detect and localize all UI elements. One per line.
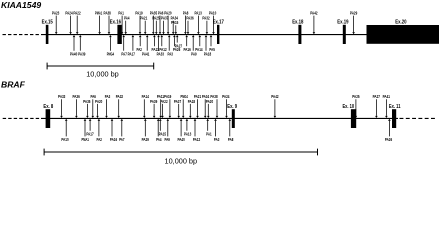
svg-text:PA17: PA17: [86, 132, 94, 137]
primer PA14 (KIAA1549, below): [195, 35, 203, 52]
primer PA40 (KIAA1549, below): [70, 35, 78, 57]
svg-text:PA16: PA16: [110, 137, 118, 142]
exon Ex.19: [337, 20, 348, 44]
svg-text:PA1: PA1: [206, 132, 212, 137]
svg-text:PA2: PA2: [96, 137, 102, 142]
primer PA33 (BRAF, above): [58, 94, 66, 118]
primer PA40 (BRAF, below): [177, 119, 185, 142]
svg-text:Ex.19: Ex.19: [337, 20, 348, 26]
svg-text:PA24: PA24: [222, 94, 230, 99]
primer PA27 (BRAF, above): [373, 94, 381, 118]
svg-text:10,000 bp: 10,000 bp: [86, 69, 119, 78]
primer PA39 (BRAF, above): [150, 99, 158, 118]
primer PA26 (KIAA1549, below): [173, 35, 181, 52]
primer PA14 (BRAF, above): [142, 94, 150, 118]
primer PA25 (BRAF, above): [352, 94, 360, 118]
primer PA36 (KIAA1549, above): [186, 16, 194, 35]
svg-text:PA26: PA26: [385, 137, 393, 142]
primer PA13 (KIAA1549, above): [194, 11, 202, 35]
svg-text:10,000 bp: 10,000 bp: [165, 157, 198, 166]
exon Ex.15: [42, 20, 53, 44]
primer PA24 (BRAF, above): [222, 94, 230, 118]
svg-text:PA3: PA3: [105, 94, 111, 99]
exon Ex.20 (large): [367, 20, 440, 44]
svg-text:PA14: PA14: [195, 47, 203, 52]
primer PA4 (BRAF, below): [156, 119, 162, 142]
scale bar 10,000 bp (KIAA1549): [47, 63, 154, 79]
primer PA38 (KIAA1549, above): [104, 11, 112, 35]
svg-text:PA39: PA39: [78, 52, 86, 57]
exon Ex.17: [213, 20, 224, 44]
primer PA35 (BRAF, above): [83, 99, 91, 118]
primer PA2 (KIAA1549, below): [136, 35, 142, 52]
svg-text:PA36: PA36: [72, 94, 80, 99]
primer PA8 (BRAF, below): [228, 119, 234, 142]
svg-text:PMA1: PMA1: [95, 11, 103, 16]
primer PA12 (BRAF, below): [193, 119, 201, 142]
primer PA16 (BRAF, below): [110, 119, 118, 142]
svg-text:Ex. 8: Ex. 8: [43, 104, 53, 110]
primer PA18 (KIAA1549, below): [204, 35, 212, 57]
primer PA16 (KIAA1549, below): [183, 35, 191, 52]
primer PA9 (BRAF, below): [164, 119, 170, 142]
primer PA17 (KIAA1549, below): [128, 35, 136, 57]
svg-text:KIAA1549: KIAA1549: [1, 0, 41, 10]
wire: main gene line KIAA1549: [42, 34, 370, 36]
primer PA27 (KIAA1549, below): [175, 35, 183, 48]
svg-text:PA7: PA7: [121, 52, 127, 57]
svg-text:PMA1: PMA1: [82, 137, 90, 142]
svg-text:PA35: PA35: [83, 99, 91, 104]
primer PA26 (BRAF, below): [385, 119, 393, 142]
primer PA29 (BRAF, below): [142, 119, 150, 142]
svg-text:PA20: PA20: [95, 99, 103, 104]
primer PA17 (BRAF, below): [86, 119, 94, 137]
svg-text:PA39: PA39: [150, 99, 158, 104]
primer PA36 (BRAF, above): [72, 94, 80, 118]
primer PA19 (BRAF, above): [164, 94, 172, 118]
primer PA22 (KIAA1549, above): [73, 11, 81, 35]
primer PA6 (KIAA1549, above): [158, 11, 164, 35]
primer PMG4 (KIAA1549, below): [107, 35, 115, 57]
wire: dashed intron line top-left: [3, 34, 43, 36]
svg-text:PA29: PA29: [350, 11, 358, 16]
svg-text:Ex. 9: Ex. 9: [227, 104, 237, 110]
svg-text:Ex.17: Ex.17: [213, 20, 224, 26]
svg-text:Ex. 11: Ex. 11: [389, 104, 401, 110]
svg-text:PA42: PA42: [310, 11, 318, 16]
exon Ex. 9: [227, 104, 237, 128]
svg-text:PA13: PA13: [194, 11, 202, 16]
svg-text:PA8: PA8: [228, 137, 234, 142]
primer PA18 (BRAF, above): [188, 99, 196, 118]
primer PA21 (KIAA1549, above): [140, 16, 148, 35]
svg-text:PA40: PA40: [177, 137, 185, 142]
svg-text:PA4: PA4: [156, 137, 162, 142]
primer PA20 (BRAF, above): [95, 99, 103, 118]
exon Ex. 10: [343, 104, 357, 128]
primer PA3 (BRAF, above): [105, 94, 111, 118]
wire: main gene line BRAF: [41, 117, 398, 119]
svg-text:Ex.18: Ex.18: [292, 20, 303, 26]
primer PA38 (BRAF, above): [210, 94, 218, 118]
svg-text:PA22: PA22: [160, 99, 168, 104]
svg-text:PA10: PA10: [61, 137, 69, 142]
svg-text:PA21: PA21: [194, 94, 202, 99]
primer PA35 (KIAA1549, above): [150, 11, 158, 35]
svg-text:PA33: PA33: [58, 94, 66, 99]
svg-text:PA18: PA18: [204, 52, 212, 57]
primer PA7 (KIAA1549, below): [121, 35, 127, 57]
primer PA19 (KIAA1549, above): [135, 11, 143, 35]
primer PA1 (BRAF, below): [206, 119, 212, 137]
svg-text:PA3: PA3: [214, 137, 220, 142]
svg-text:PA42: PA42: [271, 94, 279, 99]
svg-text:PA5: PA5: [209, 47, 215, 52]
svg-text:PA13: PA13: [184, 132, 192, 137]
primer PA9 (KIAA1549, below): [191, 35, 197, 57]
primer PA33 (KIAA1549, below): [157, 35, 165, 57]
svg-text:PA32: PA32: [116, 94, 124, 99]
svg-text:PA29: PA29: [142, 137, 150, 142]
primer PA13 (BRAF, below): [184, 119, 192, 137]
primer PA5 (KIAA1549, below): [209, 35, 215, 52]
primer PMG4 (BRAF, above): [181, 94, 189, 118]
svg-text:PA27: PA27: [373, 94, 381, 99]
svg-text:Ex. 10: Ex. 10: [343, 104, 355, 110]
primer PA37 (KIAA1549, above): [161, 16, 169, 35]
svg-text:PA4: PA4: [124, 16, 130, 21]
primer PA8 (KIAA1549, above): [183, 11, 189, 35]
primer PA21 (BRAF, above): [194, 94, 202, 118]
exon Ex.18: [292, 20, 303, 44]
svg-text:PA27: PA27: [175, 43, 183, 48]
primer PA42 (KIAA1549, above): [310, 11, 318, 35]
svg-text:PA38: PA38: [104, 11, 112, 16]
primer PA3 (KIAA1549, below): [167, 35, 173, 57]
svg-text:PA37: PA37: [161, 16, 169, 21]
primer PA3 (BRAF, below): [214, 119, 220, 142]
svg-text:PA14: PA14: [142, 94, 150, 99]
svg-text:PA12: PA12: [159, 47, 167, 52]
svg-text:PA37: PA37: [174, 99, 182, 104]
primer PA41 (KIAA1549, below): [142, 35, 150, 57]
svg-text:PA7: PA7: [119, 137, 125, 142]
wire: dashed intron line bottom-left: [3, 117, 41, 119]
svg-text:PA41: PA41: [383, 94, 391, 99]
primer PA29 (KIAA1549, above): [350, 11, 358, 35]
svg-text:PA16: PA16: [183, 47, 191, 52]
svg-text:PA41: PA41: [142, 52, 150, 57]
exon Ex. 11: [389, 104, 401, 128]
svg-text:Ex.20: Ex.20: [395, 20, 406, 26]
primer PA10 (BRAF, below): [61, 119, 69, 142]
primer PA6 (BRAF, above): [90, 94, 96, 118]
exon Ex.16: [110, 20, 122, 44]
svg-text:PA25: PA25: [352, 94, 360, 99]
svg-text:PA12: PA12: [193, 137, 201, 142]
svg-text:PA3: PA3: [167, 52, 173, 57]
primer PA11 (KIAA1549, below): [152, 35, 160, 52]
wire: dashed intron line bottom-right: [400, 117, 438, 119]
primer PA23 (KIAA1549, above): [52, 11, 60, 35]
svg-text:PA10: PA10: [209, 11, 217, 16]
exon Ex. 8: [43, 104, 53, 128]
primer PA20 (KIAA1549, above): [164, 11, 172, 35]
svg-text:PA17: PA17: [128, 52, 136, 57]
primer PA34 (KIAA1549, above): [171, 16, 179, 35]
svg-text:PA23: PA23: [52, 11, 60, 16]
svg-text:PA38: PA38: [210, 94, 218, 99]
primer PA1 (KIAA1549, above): [118, 11, 124, 35]
svg-text:PMG4: PMG4: [107, 52, 115, 57]
primer PA34 (BRAF, above): [202, 94, 210, 118]
primer PMA1 (KIAA1549, above): [95, 11, 103, 35]
primer PA41 (BRAF, above): [383, 94, 391, 118]
svg-text:PA9: PA9: [191, 52, 197, 57]
primer PA39 (KIAA1549, below): [78, 35, 86, 57]
primer PA10 (KIAA1549, above): [209, 11, 217, 35]
primer PA11 (BRAF, above): [157, 94, 165, 118]
svg-text:PA32: PA32: [202, 16, 210, 21]
primer PA12 (KIAA1549, below): [159, 35, 167, 52]
primer PA7 (BRAF, below): [119, 119, 125, 142]
svg-text:PA24: PA24: [65, 11, 73, 16]
svg-text:PA15: PA15: [171, 20, 179, 25]
svg-text:Ex.15: Ex.15: [42, 20, 53, 26]
svg-text:Ex.16: Ex.16: [110, 20, 121, 26]
primer PA15 (BRAF, below): [159, 119, 167, 137]
primer PA24 (KIAA1549, above): [65, 11, 73, 35]
primer PA2 (BRAF, below): [96, 119, 102, 142]
primer PA42 (BRAF, above): [271, 94, 279, 118]
primer PA25 (KIAA1549, above): [152, 16, 160, 35]
svg-text:PA40: PA40: [70, 52, 78, 57]
primer PA22 (BRAF, above): [160, 99, 168, 118]
svg-text:PA21: PA21: [140, 16, 148, 21]
svg-text:PA9: PA9: [164, 137, 170, 142]
svg-text:PA33: PA33: [157, 52, 165, 57]
svg-text:PA20: PA20: [206, 99, 214, 104]
primer PA15 (KIAA1549, above): [171, 20, 179, 34]
primer PMA1 (BRAF, below): [82, 119, 90, 142]
svg-text:PA18: PA18: [188, 99, 196, 104]
svg-text:PA25: PA25: [152, 16, 160, 21]
primer PA37 (BRAF, above): [174, 99, 182, 118]
primer PA32 (BRAF, above): [116, 94, 124, 118]
primer PA4 (KIAA1549, above): [124, 16, 130, 35]
primer PA20 (BRAF, above): [206, 99, 214, 118]
svg-text:PA19: PA19: [164, 94, 172, 99]
svg-text:PA22: PA22: [73, 11, 81, 16]
svg-text:PA15: PA15: [159, 132, 167, 137]
svg-text:BRAF: BRAF: [1, 80, 26, 90]
scale bar 10,000 bp (BRAF): [44, 149, 317, 166]
svg-text:PA36: PA36: [186, 16, 194, 21]
primer PA32 (KIAA1549, above): [202, 16, 210, 35]
